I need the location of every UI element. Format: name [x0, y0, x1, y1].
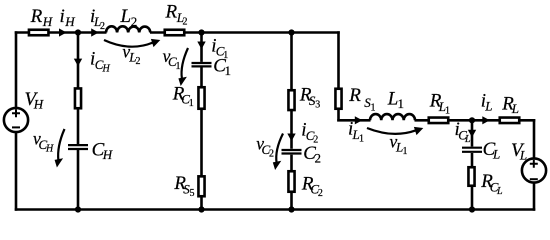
resistor RL [500, 118, 520, 124]
svg-text:RCL: RCL [480, 171, 503, 197]
resistor RC2 [288, 171, 294, 192]
svg-text:vC2: vC2 [256, 134, 274, 160]
arrowhead iL1 [355, 116, 363, 124]
resistor RCL [468, 167, 474, 186]
node A dot top [75, 29, 81, 35]
svg-text:L1: L1 [387, 89, 404, 112]
svg-text:RH: RH [30, 6, 53, 29]
node D dot mid [469, 117, 475, 123]
wire top bus right segment [150, 31, 340, 34]
voltage arrow vL2 arc [104, 40, 153, 47]
inductor L1 [370, 114, 415, 120]
resistor RC1 [198, 87, 204, 109]
svg-text:CH: CH [92, 140, 113, 163]
arrowhead iL2 [91, 28, 99, 36]
source VL minus sign [530, 178, 538, 180]
arrowhead iCL [468, 130, 476, 138]
node B dot bottom [198, 206, 204, 212]
resistor RL1 [429, 118, 449, 124]
source VH minus sign [12, 126, 20, 128]
capacitor CL plates [462, 148, 482, 152]
svg-text:vL1: vL1 [390, 132, 408, 158]
resistor RS5 [198, 176, 204, 196]
wire column CH lower [77, 150, 80, 210]
svg-text:RS3: RS3 [299, 85, 320, 111]
voltage arrow vC2 head [273, 161, 282, 170]
svg-text:CL: CL [483, 139, 501, 162]
wire bottom bus [15, 208, 536, 211]
resistor RH [29, 30, 49, 36]
arrowhead iC2 [287, 134, 295, 142]
node D dot bottom [469, 206, 475, 212]
svg-text:vC1: vC1 [163, 46, 181, 72]
svg-text:RL2: RL2 [165, 2, 188, 28]
wire mid bus right segment [415, 119, 536, 122]
voltage arrow vL2 head [151, 39, 160, 47]
wire left column upper [15, 31, 18, 108]
resistor RS3 [288, 90, 294, 110]
node C dot bottom [288, 206, 294, 212]
capacitor CH plates [68, 145, 88, 149]
capacitor C1 plates [192, 63, 212, 66]
voltage arrow vC1 head [178, 77, 187, 86]
node B dot top [198, 29, 204, 35]
source VL plus sign [530, 160, 538, 168]
source VH plus sign [12, 109, 20, 117]
wire column C1 lower [200, 68, 203, 210]
wire right column lower [533, 183, 536, 211]
svg-text:RS5: RS5 [173, 173, 194, 199]
wire left column lower [15, 132, 18, 211]
voltage arrow vCH head [55, 158, 64, 167]
resistor RS1 [335, 89, 341, 109]
svg-text:RC1: RC1 [172, 83, 194, 109]
arrowhead iCH [74, 59, 82, 67]
resistor RCH [75, 88, 81, 108]
wire column C1 upper [200, 33, 203, 62]
arrowhead iC1 [197, 42, 205, 50]
svg-text:RS1: RS1 [348, 85, 375, 114]
svg-text:iL2: iL2 [90, 6, 105, 32]
wire column CL upper [471, 120, 474, 146]
svg-text:iH: iH [60, 6, 76, 29]
svg-text:VH: VH [25, 89, 44, 112]
resistor RL2 [165, 30, 185, 36]
svg-text:L2: L2 [120, 6, 138, 29]
node C dot top [288, 29, 294, 35]
voltage arrow vL1 arc [367, 128, 416, 134]
wire column C2 lower [290, 155, 293, 210]
voltage arrow vCH arc [58, 129, 64, 161]
wire column CH upper [77, 33, 80, 145]
wire column C2 upper [290, 33, 293, 149]
arrowhead iH [59, 28, 67, 36]
svg-text:iCL: iCL [455, 119, 472, 145]
node A dot bottom [75, 206, 81, 212]
wire right column upper [533, 119, 536, 159]
arrowhead iL [482, 116, 490, 124]
svg-text:C1: C1 [213, 56, 231, 79]
wire column RS1 [337, 31, 340, 121]
svg-text:iL: iL [481, 91, 493, 114]
svg-text:vCH: vCH [33, 129, 54, 155]
inductor L2 [106, 26, 150, 32]
wire top bus left segment [15, 31, 107, 34]
wire column CL lower [471, 153, 474, 210]
voltage arrow vL1 head [414, 127, 423, 135]
svg-text:RL: RL [501, 94, 519, 117]
svg-text:RL1: RL1 [429, 91, 450, 117]
svg-text:VL: VL [511, 140, 527, 163]
capacitor C2 plates [282, 150, 302, 154]
source VH circle [4, 108, 28, 132]
source VL circle [522, 158, 546, 182]
voltage arrow vC2 arc [276, 134, 283, 164]
wire mid bus left segment [337, 119, 370, 122]
svg-text:iCH: iCH [90, 49, 111, 75]
svg-text:iC2: iC2 [301, 120, 318, 146]
voltage arrow vC1 arc [182, 48, 188, 79]
svg-text:C2: C2 [303, 143, 321, 166]
svg-text:RC2: RC2 [301, 173, 323, 199]
